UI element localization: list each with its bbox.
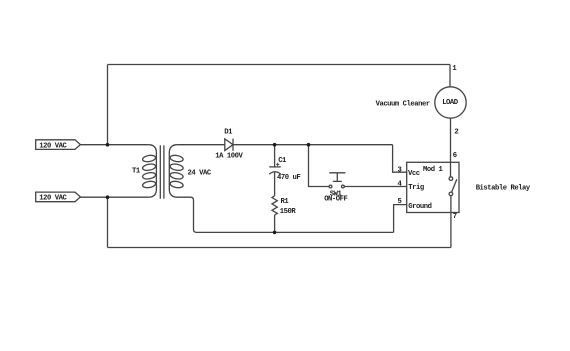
wire left vertical top rail riser <box>107 65 109 145</box>
svg-text:1A 100V: 1A 100V <box>215 153 243 161</box>
transformer primary loop 1 <box>142 154 156 162</box>
svg-text:24 VAC: 24 VAC <box>188 170 212 178</box>
wire relay to bottom rail <box>450 196 452 248</box>
wire flag-bottom to transformer primary bottom <box>80 196 148 198</box>
svg-text:120 VAC: 120 VAC <box>39 195 67 203</box>
switch SW1 actuator lower bar <box>333 180 342 182</box>
module Mod 1 box <box>407 162 459 212</box>
wire bottom rail <box>108 247 451 249</box>
switch SW1 left contact <box>329 185 332 188</box>
svg-text:Vcc: Vcc <box>408 170 420 178</box>
svg-text:6: 6 <box>453 152 457 160</box>
relay contact top circle <box>449 177 453 181</box>
capacitor C1 bottom lead <box>274 172 276 196</box>
diode D1 triangle <box>225 139 233 151</box>
wire junction drop to switch <box>309 145 330 187</box>
svg-text:Mod 1: Mod 1 <box>423 166 443 174</box>
transformer secondary loop 3 <box>170 172 184 180</box>
svg-text:ON-OFF: ON-OFF <box>324 196 347 204</box>
relay contact arm <box>452 179 457 192</box>
transformer secondary loop 4 <box>170 180 184 188</box>
transformer primary loop 4 <box>142 180 156 188</box>
transformer primary loop 2 <box>142 163 156 171</box>
transformer secondary outline <box>169 145 196 233</box>
svg-text:2: 2 <box>454 129 458 137</box>
svg-text:C1: C1 <box>278 157 287 165</box>
transformer secondary loop 2 <box>170 163 184 171</box>
svg-text:D1: D1 <box>224 129 233 137</box>
capacitor C1 curved plate <box>269 172 281 174</box>
svg-text:Ground: Ground <box>408 203 431 211</box>
wire vcc drop to pin 3 <box>393 145 407 173</box>
svg-text:3: 3 <box>398 167 402 175</box>
junction switch node <box>307 143 311 147</box>
transformer primary loop 3 <box>142 172 156 180</box>
connector flag 120 VAC top <box>36 140 81 150</box>
wire top rail <box>108 64 451 66</box>
resistor R1 bottom lead <box>274 215 276 232</box>
capacitor C1 top lead <box>274 145 276 167</box>
wire diode to vcc bend <box>233 144 393 146</box>
transformer T1 primary outline <box>148 145 156 198</box>
relay contact bottom circle <box>449 192 453 196</box>
svg-text:T1: T1 <box>132 167 141 175</box>
svg-text:120 VAC: 120 VAC <box>39 142 67 150</box>
diode D1 cathode bar <box>232 139 234 151</box>
connector flag 120 VAC bottom <box>36 192 81 202</box>
svg-text:Bistable Relay: Bistable Relay <box>476 185 531 193</box>
svg-text:R1: R1 <box>281 198 290 206</box>
wire ground rail up to pin 5 <box>394 205 407 233</box>
resistor R1 zigzag <box>272 196 277 215</box>
transformer secondary loop 1 <box>170 154 184 162</box>
wire secondary top to diode <box>177 144 224 146</box>
transformer core line 1 <box>159 145 161 198</box>
load circle LOAD <box>435 87 466 118</box>
svg-text:5: 5 <box>398 198 402 206</box>
switch SW1 actuator bar <box>329 172 345 174</box>
transformer core line 2 <box>163 145 165 198</box>
wire inner ground rail <box>197 231 394 233</box>
svg-text:7: 7 <box>453 213 457 221</box>
wire flag-top to transformer primary <box>80 144 148 146</box>
capacitor C1 top plate <box>269 166 281 168</box>
junction ground rail <box>273 231 277 235</box>
wire left bottom vertical <box>107 197 109 247</box>
svg-text:150R: 150R <box>280 208 297 216</box>
svg-text:470 uF: 470 uF <box>277 174 300 182</box>
svg-text:Vacuum Cleaner: Vacuum Cleaner <box>376 101 430 109</box>
junction bottom-left <box>106 195 110 199</box>
junction top-left <box>106 143 110 147</box>
svg-text:Trig: Trig <box>408 184 424 192</box>
switch SW1 right contact <box>342 185 345 188</box>
switch SW1 actuator stem <box>336 173 338 182</box>
wire load bottom to relay contact <box>450 118 452 177</box>
wire top rail down to load <box>449 65 451 87</box>
junction cap node <box>273 143 277 147</box>
svg-text:LOAD: LOAD <box>442 99 459 107</box>
capacitor C1 plus sign <box>276 163 279 166</box>
wire switch to pin 4 <box>344 186 406 188</box>
